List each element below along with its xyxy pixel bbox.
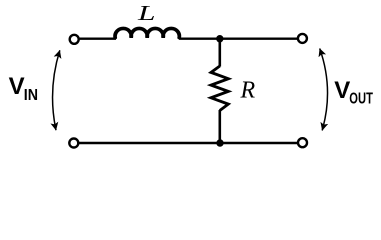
- terminal top-left: [70, 35, 79, 44]
- svg-text:R: R: [240, 78, 256, 104]
- wire top-right (inductor to output terminal, through node): [179, 38, 297, 40]
- wire top-left (input terminal to inductor): [79, 38, 116, 40]
- wire (resistor bottom lead): [219, 110, 222, 143]
- wire bottom rail: [79, 142, 297, 144]
- node junction bottom: [216, 139, 223, 146]
- label VOUT: [334, 77, 373, 108]
- resistor R: [211, 66, 228, 111]
- svg-text:IN: IN: [24, 87, 38, 104]
- arrow VIN (curved double-headed): [53, 50, 60, 130]
- label VIN: [9, 73, 38, 104]
- terminal bottom-right: [298, 138, 307, 147]
- terminal bottom-left: [69, 139, 78, 148]
- arrow VOUT (curved double-headed): [320, 49, 328, 131]
- svg-text:OUT: OUT: [349, 91, 373, 108]
- svg-text:V: V: [334, 77, 350, 104]
- node junction top: [216, 35, 223, 42]
- svg-text:L: L: [137, 1, 156, 25]
- wire (resistor top lead): [219, 39, 222, 67]
- terminal top-right: [298, 34, 307, 43]
- inductor L: [115, 28, 179, 37]
- svg-text:V: V: [9, 73, 25, 100]
